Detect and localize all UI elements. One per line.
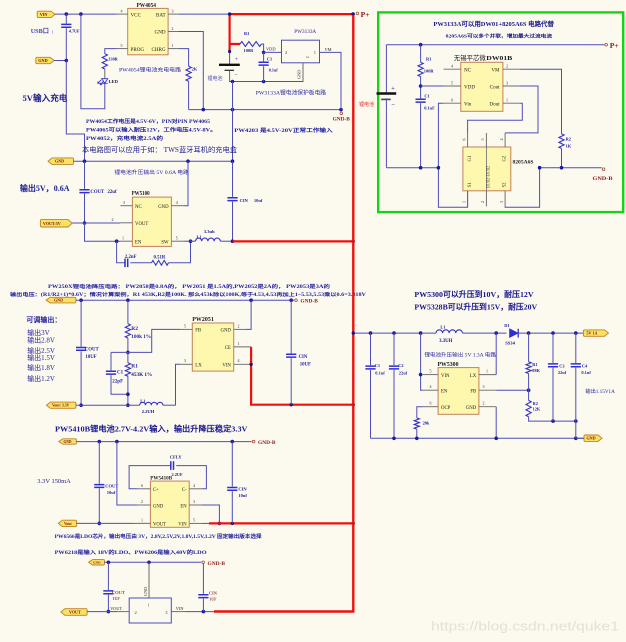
svg-text:10uf: 10uf <box>238 493 247 498</box>
svg-text:LED: LED <box>109 79 119 84</box>
svg-text:5: 5 <box>480 138 485 140</box>
svg-text:12K: 12K <box>533 407 541 412</box>
svg-text:VOUT: VOUT <box>110 606 122 611</box>
svg-text:VIN: VIN <box>176 606 184 611</box>
svg-text:3: 3 <box>305 56 310 58</box>
svg-text:CIN: CIN <box>209 590 218 595</box>
svg-text:PW6566是LDO芯片，输出电压由 3V，2.8V,2.5: PW6566是LDO芯片，输出电压由 3V，2.8V,2.5V,2V,1.8V,… <box>55 533 263 540</box>
svg-text:5: 5 <box>184 323 186 328</box>
svg-text:PW5100: PW5100 <box>132 191 150 197</box>
svg-text:输出5V，0.6A: 输出5V，0.6A <box>20 183 70 193</box>
svg-text:GND-B: GND-B <box>300 299 318 304</box>
svg-text:C2: C2 <box>398 363 403 368</box>
svg-text:4: 4 <box>430 384 432 389</box>
svg-text:4: 4 <box>193 483 195 488</box>
svg-text:PW5410B: PW5410B <box>150 475 172 481</box>
svg-text:GND: GND <box>587 436 596 441</box>
svg-text:3: 3 <box>172 9 174 14</box>
svg-text:C1: C1 <box>375 363 380 368</box>
svg-text:VOUT:5V: VOUT:5V <box>43 221 61 226</box>
svg-text:VIN: VIN <box>178 523 187 528</box>
svg-text:锂电池: 锂电池 <box>208 75 223 82</box>
svg-text:BAT: BAT <box>156 12 167 18</box>
svg-text:22uf: 22uf <box>108 190 117 195</box>
svg-text:5: 5 <box>121 43 123 48</box>
svg-text:GND: GND <box>466 406 477 411</box>
svg-text:C3: C3 <box>559 363 565 368</box>
svg-text:100k 1%: 100k 1% <box>131 334 151 340</box>
svg-text:COUT: COUT <box>85 348 100 353</box>
svg-text:输出2.8V: 输出2.8V <box>27 336 55 345</box>
svg-text:本电路图可以应用于如： TWS蓝牙耳机的充电盒: 本电路图可以应用于如： TWS蓝牙耳机的充电盒 <box>82 145 237 154</box>
svg-text:3: 3 <box>193 499 195 504</box>
svg-text:GND: GND <box>93 561 101 565</box>
svg-text:EN: EN <box>180 504 187 509</box>
svg-text:VIN: VIN <box>441 374 450 379</box>
svg-text:C1: C1 <box>267 56 272 61</box>
svg-text:GND: GND <box>38 58 47 63</box>
svg-text:D1/D2~D1/D2: D1/D2~D1/D2 <box>486 166 490 188</box>
svg-text:P+: P+ <box>610 41 619 50</box>
svg-text:2: 2 <box>172 26 174 31</box>
svg-text:GND: GND <box>55 159 64 164</box>
svg-text:3.3UH: 3.3UH <box>439 339 452 344</box>
svg-text:3.3uh: 3.3uh <box>204 229 215 234</box>
svg-text:PW250X锂电池降压电路： PW2058是0.8A的，: PW250X锂电池降压电路： PW2058是0.8A的， PW2051 是1.5… <box>48 283 330 290</box>
svg-text:6: 6 <box>451 98 453 103</box>
svg-text:VOUT: VOUT <box>135 222 148 227</box>
svg-text:GND: GND <box>143 587 148 596</box>
svg-text:22uf: 22uf <box>399 371 408 376</box>
svg-text:LX: LX <box>195 364 202 369</box>
svg-text:Dout: Dout <box>489 102 500 108</box>
svg-text:锂电池升压输出 5V 0.6A 电路: 锂电池升压输出 5V 0.6A 电路 <box>114 169 188 176</box>
svg-text:输出1.15V1A: 输出1.15V1A <box>585 387 615 395</box>
svg-text:PW4065可以输入耐压12V，工作电压4.5V-8V。: PW4065可以输入耐压12V，工作电压4.5V-8V。 <box>86 126 217 133</box>
svg-text:2.2UH: 2.2UH <box>142 409 155 414</box>
svg-text:VCC: VCC <box>131 12 142 18</box>
svg-text:2: 2 <box>483 401 485 406</box>
svg-text:GND: GND <box>158 205 169 210</box>
svg-text:USB口: USB口 <box>31 28 49 35</box>
svg-text:输出3V: 输出3V <box>27 328 50 337</box>
svg-text:4.7UF: 4.7UF <box>69 29 80 34</box>
svg-text:3: 3 <box>483 384 485 389</box>
svg-text:4: 4 <box>451 64 453 69</box>
svg-text:2.2UF: 2.2UF <box>172 472 183 477</box>
svg-text:DW01B: DW01B <box>486 55 513 62</box>
svg-text:Vout: Vout <box>64 522 72 526</box>
svg-text:6: 6 <box>430 401 432 406</box>
svg-text:CIN: CIN <box>240 198 249 203</box>
svg-text:COUT: COUT <box>112 590 125 595</box>
svg-text:CE: CE <box>225 346 231 351</box>
svg-text:L1: L1 <box>140 399 145 404</box>
svg-text:EN: EN <box>441 389 448 394</box>
svg-text:R1: R1 <box>426 57 431 62</box>
svg-text:5: 5 <box>176 236 178 241</box>
svg-text:R1: R1 <box>131 364 138 370</box>
svg-text:VDD: VDD <box>266 47 276 52</box>
svg-text:SS34: SS34 <box>505 340 515 345</box>
svg-text:2: 2 <box>285 50 287 55</box>
svg-text:+: + <box>391 85 395 92</box>
svg-text:2: 2 <box>480 201 485 203</box>
svg-text:2: 2 <box>112 217 114 222</box>
svg-text:1: 1 <box>52 29 54 34</box>
svg-text:GND: GND <box>297 70 302 79</box>
svg-text:0.1uf: 0.1uf <box>581 370 591 375</box>
svg-text:1: 1 <box>506 98 508 103</box>
svg-text:3: 3 <box>506 80 508 85</box>
svg-text:2.2nF: 2.2nF <box>125 255 137 260</box>
svg-text:PW3133A锂电池保护板电路: PW3133A锂电池保护板电路 <box>256 89 327 97</box>
svg-text:22pF: 22pF <box>112 379 123 384</box>
svg-text:COUT: COUT <box>90 190 105 195</box>
svg-text:EN: EN <box>135 240 142 245</box>
svg-text:2: 2 <box>506 64 508 69</box>
svg-text:R2: R2 <box>566 137 571 142</box>
svg-text:4: 4 <box>238 358 240 363</box>
svg-text:453K 1%: 453K 1% <box>131 372 152 378</box>
svg-text:88K: 88K <box>532 368 540 373</box>
svg-text:输出1.2V: 输出1.2V <box>27 374 55 383</box>
svg-text:D1: D1 <box>504 323 510 328</box>
svg-text:1: 1 <box>238 341 240 346</box>
svg-text:1UF: 1UF <box>209 596 217 601</box>
svg-text:VM: VM <box>491 68 500 74</box>
svg-text:C-: C- <box>182 488 187 493</box>
svg-text:−: − <box>234 72 237 78</box>
svg-text:PW2051: PW2051 <box>192 316 214 323</box>
svg-text:8205A6S: 8205A6S <box>513 159 534 165</box>
svg-text:1: 1 <box>148 604 150 608</box>
svg-text:L1: L1 <box>440 324 445 329</box>
svg-text:CIN: CIN <box>238 486 247 491</box>
svg-text:100R: 100R <box>244 48 255 53</box>
svg-text:SW: SW <box>161 240 169 245</box>
svg-text:G1: G1 <box>468 155 473 161</box>
svg-text:PW5410B锂电池2.7V-4.2V输入，输出升降压稳定3: PW5410B锂电池2.7V-4.2V输入，输出升降压稳定3.3V <box>55 423 248 433</box>
svg-text:R2: R2 <box>533 401 538 406</box>
svg-text:22uf: 22uf <box>558 370 567 375</box>
svg-text:PW4203 是4.5V-20V正常工作输入: PW4203 是4.5V-20V正常工作输入 <box>234 127 332 134</box>
svg-text:VOUT: VOUT <box>69 610 81 615</box>
svg-text:3.3V 150mA: 3.3V 150mA <box>37 478 71 485</box>
svg-text:5: 5 <box>451 80 453 85</box>
svg-text:R2: R2 <box>131 326 138 332</box>
svg-text:1: 1 <box>461 201 466 203</box>
svg-text:C4: C4 <box>582 363 588 368</box>
svg-text:100R: 100R <box>424 68 435 73</box>
svg-text:PROG: PROG <box>131 47 145 53</box>
svg-text:10UF: 10UF <box>300 362 311 367</box>
svg-text:PW4052，充电电流2.5A的: PW4052，充电电流2.5A的 <box>86 135 163 142</box>
svg-text:0.1uf: 0.1uf <box>375 371 385 376</box>
svg-text:COUT: COUT <box>105 484 118 489</box>
svg-text:GND: GND <box>155 30 166 36</box>
svg-text:GND-B: GND-B <box>208 562 226 567</box>
svg-text:330R: 330R <box>108 56 118 61</box>
svg-text:2K: 2K <box>192 67 198 72</box>
svg-text:20k: 20k <box>423 420 430 425</box>
svg-text:10UF: 10UF <box>85 355 96 360</box>
svg-text:6: 6 <box>141 483 143 488</box>
svg-text:G2: G2 <box>502 155 507 161</box>
svg-text:CIN: CIN <box>299 355 308 360</box>
svg-text:VM: VM <box>325 47 332 52</box>
svg-text:3: 3 <box>184 358 186 363</box>
svg-text:PW4054锂电池充电电路: PW4054锂电池充电电路 <box>119 66 182 74</box>
svg-text:FB: FB <box>470 389 476 394</box>
svg-text:LX: LX <box>470 374 477 379</box>
svg-text:PW4054: PW4054 <box>137 3 157 9</box>
svg-text:5V 1A: 5V 1A <box>587 331 598 336</box>
svg-text:5V输入充电: 5V输入充电 <box>23 92 68 103</box>
svg-text:GND: GND <box>54 298 63 303</box>
svg-text:3: 3 <box>499 201 504 203</box>
svg-text:1: 1 <box>141 518 143 523</box>
svg-text:Cout: Cout <box>490 84 500 90</box>
svg-text:VIN: VIN <box>40 12 48 17</box>
svg-text:PW6218是输入 18V的LDO、PW6206是输入40V: PW6218是输入 18V的LDO、PW6206是输入40V的LDO <box>55 549 207 556</box>
svg-text:VIN: VIN <box>222 364 231 369</box>
svg-text:锂电池升压输出 5V 1.3A 电路: 锂电池升压输出 5V 1.3A 电路 <box>424 351 496 358</box>
svg-text:Vin: Vin <box>464 102 472 108</box>
svg-text:PW3133A可以用DW01+8205A6S 电路代替: PW3133A可以用DW01+8205A6S 电路代替 <box>433 19 554 28</box>
svg-text:FB: FB <box>195 329 201 334</box>
svg-text:C1: C1 <box>117 371 124 376</box>
svg-text:1: 1 <box>172 43 174 48</box>
svg-text:PW5300: PW5300 <box>438 361 459 368</box>
svg-text:OCP: OCP <box>441 406 451 411</box>
svg-text:锂电池: 锂电池 <box>359 101 374 108</box>
svg-text:S2: S2 <box>502 182 507 188</box>
svg-text:GND: GND <box>153 504 164 509</box>
svg-text:无锡平芯微: 无锡平芯微 <box>454 53 487 62</box>
svg-text:Vout: 3.3V: Vout: 3.3V <box>52 404 70 408</box>
svg-text:NC: NC <box>135 205 142 210</box>
svg-text:0.1uf: 0.1uf <box>269 67 279 72</box>
svg-text:10uf: 10uf <box>107 490 116 495</box>
svg-text:输出1.8V: 输出1.8V <box>27 363 55 372</box>
svg-text:R1: R1 <box>532 362 537 367</box>
svg-text:GND: GND <box>220 329 231 334</box>
svg-text:PW3133A: PW3133A <box>294 29 316 35</box>
svg-text:0.1uF: 0.1uF <box>424 105 435 110</box>
svg-text:1: 1 <box>486 369 488 374</box>
svg-text:2: 2 <box>141 499 143 504</box>
svg-text:1: 1 <box>122 236 124 241</box>
svg-text:8205A6S可以多个并联，增加最大过流电流: 8205A6S可以多个并联，增加最大过流电流 <box>446 33 553 40</box>
svg-text:+: + <box>235 57 238 63</box>
svg-text:S1: S1 <box>468 182 473 188</box>
svg-text:输出1.5V: 输出1.5V <box>27 353 55 362</box>
svg-text:−: − <box>391 102 395 109</box>
svg-text:可调输出：: 可调输出： <box>26 315 61 324</box>
svg-text:1UF: 1UF <box>113 596 121 601</box>
svg-text:2: 2 <box>135 610 137 615</box>
svg-text:VDD: VDD <box>464 84 475 90</box>
svg-text:PW4054工作电压是4.5V-6V，PIN对PIN PW4: PW4054工作电压是4.5V-6V，PIN对PIN PW4065 <box>86 118 211 125</box>
svg-text:10uf: 10uf <box>254 198 263 203</box>
svg-text:3: 3 <box>123 200 125 205</box>
svg-text:GND-B: GND-B <box>593 176 614 182</box>
svg-text:PW5300可以升压到10V，耐压12V: PW5300可以升压到10V，耐压12V <box>414 289 534 299</box>
svg-text:R1: R1 <box>244 31 249 36</box>
svg-text:C1: C1 <box>424 93 429 98</box>
svg-text:NC: NC <box>464 68 472 74</box>
svg-text:PW5328B可以升压到15V，耐压20V: PW5328B可以升压到15V，耐压20V <box>414 301 537 311</box>
svg-text:0.51R: 0.51R <box>154 255 166 260</box>
svg-text:6: 6 <box>461 138 466 140</box>
svg-text:P+: P+ <box>361 10 370 19</box>
svg-text:1K: 1K <box>566 144 572 149</box>
svg-text:2: 2 <box>238 323 240 328</box>
svg-text:VOUT: VOUT <box>153 523 166 528</box>
svg-text:https://blog.csdn.net/quke1: https://blog.csdn.net/quke1 <box>431 619 619 634</box>
svg-text:5: 5 <box>193 518 195 523</box>
svg-text:GND-B: GND-B <box>333 117 351 122</box>
svg-text:4: 4 <box>176 200 178 205</box>
svg-text:1: 1 <box>314 50 316 55</box>
svg-text:GND: GND <box>64 440 72 444</box>
svg-text:CHRG: CHRG <box>151 47 165 53</box>
svg-text:L1: L1 <box>197 234 202 239</box>
svg-text:CFLY: CFLY <box>170 455 183 460</box>
svg-text:GND-B: GND-B <box>258 441 276 446</box>
svg-text:4: 4 <box>121 9 123 14</box>
svg-text:5: 5 <box>430 369 432 374</box>
svg-text:C+: C+ <box>153 488 159 493</box>
